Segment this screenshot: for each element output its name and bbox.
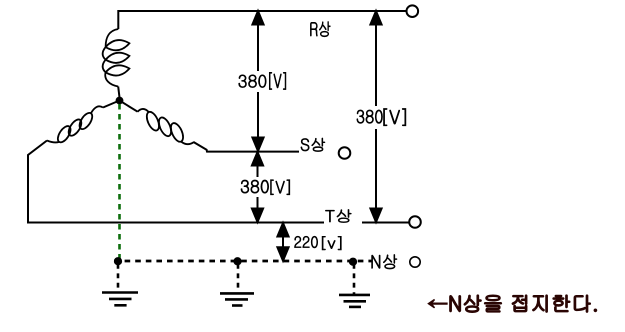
wire drop to ground 1 [117,264,120,291]
wire N bus dashed [114,260,372,263]
terminal N [410,257,420,267]
ground 1 [102,293,138,306]
wire drop to ground 3 [353,264,356,294]
winding L1 (R phase) [103,29,130,87]
label 380[V] R-T [357,109,406,126]
terminal T [409,216,421,228]
label 380[V] S-T [241,180,290,195]
voltage arrow 380V R-T [370,11,381,222]
label S상 [301,138,325,152]
ground 3 [339,295,370,307]
terminal R [407,5,419,17]
ground 2 [220,293,254,305]
label 380[V] R-S [239,72,286,89]
wire node to L3 [103,101,120,108]
label R상 [310,21,330,36]
voltage arrow 220V T-N [277,223,288,261]
label 220[v] [295,236,342,250]
node N3 [349,258,357,266]
terminal S [339,147,351,159]
wire T bus right segment [362,222,409,224]
wire drop to ground 2 [237,264,240,292]
voltage arrow 380V S-T [252,152,263,222]
label T상 [325,209,351,222]
annotation: N상을 접지한다 [429,295,597,312]
wire neutral green dashed from star point [118,104,121,260]
voltage arrow 380V R-S [252,11,263,151]
label N상 [372,255,397,270]
winding L3 (T phase) [47,106,103,144]
node N1 [114,257,122,265]
wire L2 to S bus [194,142,300,152]
node star point [116,97,123,104]
wire L1 to node [118,87,119,98]
wire L3 down left side to T bus [28,141,324,223]
node N2 [234,258,242,266]
winding L2 (S phase) [138,109,194,144]
wire top R bus [118,11,406,29]
wire node to L2 [120,101,138,112]
